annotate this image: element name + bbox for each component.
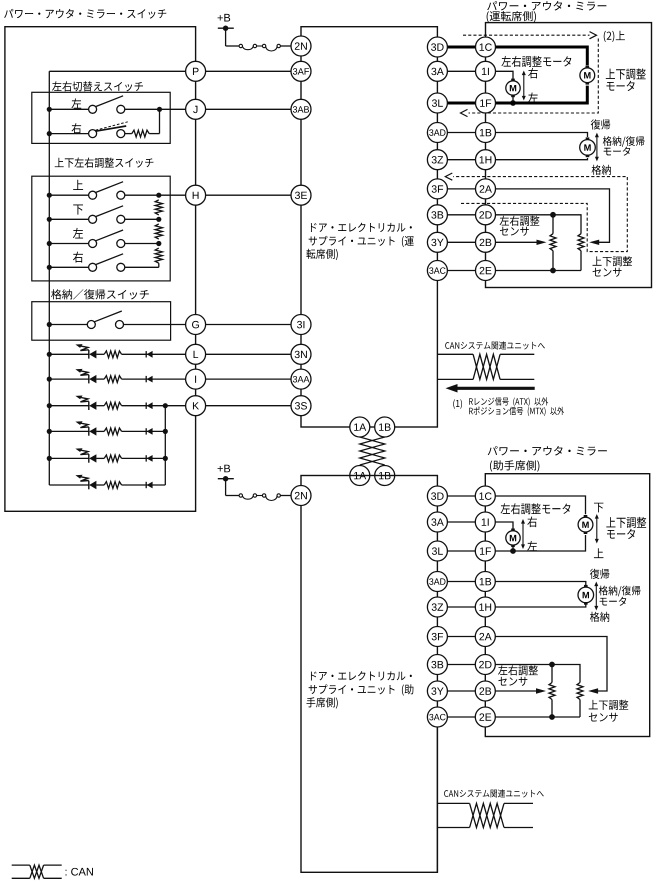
label return (driver): [591, 119, 610, 129]
terminal 3F: [427, 179, 447, 199]
terminal 3AC passenger: [427, 707, 447, 727]
wire retract motor to 1H: [496, 158, 588, 160]
wire 3D to 1C (p): [447, 495, 475, 497]
label hidari (box1): [71, 98, 81, 108]
label return (passenger): [590, 569, 609, 579]
LED row 4: [47, 421, 168, 436]
legend CAN text: [66, 868, 93, 876]
unit2 right edge stub below 3AC: [436, 727, 438, 872]
+B power feed (passenger): [218, 465, 239, 496]
terminal 3I: [291, 315, 311, 335]
wire I to 3AA: [206, 378, 291, 380]
terminal 2E mirror passenger: [475, 707, 495, 727]
wire 1B to retract motor (p): [495, 582, 586, 587]
terminal 2N passenger: [291, 486, 311, 506]
label shita (passenger): [594, 503, 603, 513]
wire 2E sensor bottom (p): [495, 714, 580, 720]
wire 3L to 1F (p): [447, 550, 475, 552]
label up-down sensor (passenger): [589, 700, 629, 722]
label unit driver: [306, 223, 413, 261]
direction arrow retract (driver): [595, 133, 599, 162]
thick loop motor to 1F: [496, 86, 588, 103]
resistor chain box2: [155, 200, 162, 267]
wire 1C to up-down motor (p): [495, 496, 585, 514]
wire 3AC to 2E: [447, 270, 475, 272]
wire 3Z to 1H: [447, 159, 475, 161]
terminal 1F mirror passenger: [475, 541, 495, 561]
selector switch box: [32, 92, 170, 143]
wire 3Y to 2B: [447, 241, 475, 243]
terminal H: [186, 185, 206, 205]
terminal 3F passenger: [427, 627, 447, 647]
wire 3F to 2A: [447, 188, 475, 190]
terminal J: [186, 99, 206, 119]
terminal 1B mirror passenger: [475, 572, 495, 592]
wire 2B to left-right sensor wiper (p): [495, 688, 546, 693]
terminal 3L passenger: [427, 541, 447, 561]
label retract (passenger): [590, 612, 609, 622]
twisted pair between units: [360, 437, 385, 465]
terminal 3A: [427, 61, 447, 81]
door electrical supply unit (passenger) box: [301, 476, 437, 873]
CAN twisted pair (driver): [437, 354, 534, 379]
wire 3A to 1I: [447, 70, 475, 72]
label hidari (driver): [528, 93, 538, 103]
label selector switch: [52, 81, 143, 91]
label R range signal: [469, 397, 548, 406]
power outer mirror (driver) box: [486, 23, 652, 288]
terminal 3AC: [427, 261, 447, 281]
wire led riser: [164, 406, 166, 485]
wire 2D sensor top (p): [495, 662, 580, 683]
label CAN units (passenger): [444, 789, 544, 797]
label power outer mirror switch: [4, 9, 166, 19]
terminal K: [186, 396, 206, 416]
wire 3B to 2D: [447, 214, 475, 216]
wire motor to 1F line: [510, 95, 516, 106]
terminal 3L: [427, 93, 447, 113]
door electrical supply unit (driver) box: [301, 27, 437, 427]
terminal 3D: [427, 37, 447, 57]
terminal 2B mirror passenger: [475, 681, 495, 701]
label mirror driver: [487, 1, 607, 22]
terminal 2D mirror passenger: [475, 655, 495, 675]
terminal 2B: [476, 232, 496, 252]
wire motor to 1F line (p): [510, 545, 516, 554]
terminal 3E: [291, 185, 311, 205]
retract switch box: [32, 302, 171, 341]
direction arrow left-right (driver): [522, 71, 526, 101]
label migi (box1): [72, 123, 82, 134]
terminal 3AD: [427, 123, 447, 143]
wire 3AD to 1B (p): [447, 581, 475, 583]
terminal 3AD passenger: [427, 572, 447, 592]
wire 2D sensor top: [496, 212, 582, 234]
motor U7 retract (passenger): [578, 585, 594, 605]
power outer mirror (passenger) box: [485, 474, 649, 737]
wire 1I to motor (p): [495, 522, 513, 531]
label up-down sensor (driver): [593, 256, 633, 277]
coil fuse to 2N (passenger): [239, 494, 291, 501]
label CAN units (driver): [445, 341, 545, 349]
label left-right sensor (passenger): [498, 665, 538, 686]
wire J to 3AB: [206, 108, 291, 110]
terminal 2E: [476, 261, 496, 281]
CAN twisted pair (passenger): [437, 803, 533, 827]
label left-right adjust motor (driver): [501, 56, 571, 67]
label hidari (passenger): [527, 541, 537, 551]
wire up-down motor to 1F (p): [495, 535, 585, 551]
terminal 2A: [476, 179, 496, 199]
terminal 3AF: [291, 61, 311, 81]
terminal 2A mirror passenger: [475, 627, 495, 647]
motor U3 up-down (driver): [580, 66, 595, 85]
terminal 3Y: [427, 232, 447, 252]
R-range signal arrow: [446, 384, 535, 393]
wire 3A to 1I (p): [447, 521, 475, 523]
terminal L: [186, 344, 206, 364]
terminal 1A upper: [350, 417, 370, 437]
label 右 (box2): [73, 252, 83, 263]
dashed sensor path: [445, 173, 627, 252]
potentiometer left-right sensor (passenger): [549, 665, 555, 718]
direction arrow retract (passenger): [594, 582, 598, 611]
terminal 2D: [476, 205, 496, 225]
dashed arrow (2)up: [463, 32, 597, 39]
terminal 1B: [476, 123, 496, 143]
terminal 1B upper: [375, 417, 395, 437]
label (2)up: [604, 31, 625, 42]
terminal 1I: [476, 61, 496, 81]
LED row 5: [47, 448, 168, 463]
label retract-return motor (passenger): [599, 586, 641, 606]
wire P to left bus: [49, 70, 185, 72]
switch row 左: [47, 230, 162, 248]
terminal 3Z passenger: [427, 597, 447, 617]
dashed return path down: [461, 39, 599, 117]
wire 3AD to 1B: [447, 132, 475, 134]
terminal 1F: [476, 93, 496, 113]
switch row 右: [47, 254, 159, 271]
wire 2A to up-down sensor wiper: [496, 189, 610, 245]
terminal 1I mirror passenger: [475, 512, 495, 532]
label R position signal: [469, 407, 564, 416]
wire 1I to motor: [496, 71, 514, 80]
terminal 3Y passenger: [427, 681, 447, 701]
terminal 1B lower: [375, 466, 395, 486]
LED row 6: [49, 475, 165, 490]
terminal G: [186, 315, 206, 335]
wire 1B to retract motor: [496, 133, 588, 138]
wire up row to H: [159, 194, 186, 196]
switch row 上: [47, 182, 162, 200]
wire 2E sensor bottom: [496, 268, 582, 274]
wire 3Y to 2B (p): [447, 690, 475, 692]
wire L to 3N: [206, 353, 291, 355]
label migi (passenger): [527, 517, 537, 528]
label 左 (box2): [73, 228, 83, 239]
terminal 3AA: [291, 369, 311, 389]
wire G to 3I: [206, 324, 291, 326]
thick loop 1C to motor: [496, 47, 588, 65]
wire 2A to up-down sensor wiper (p): [495, 637, 607, 694]
potentiometer left-right sensor (driver): [550, 215, 556, 271]
label retract switch: [51, 289, 149, 299]
switch right row: [47, 122, 128, 138]
potentiometer up-down sensor (driver): [578, 234, 584, 271]
terminal 1A lower: [350, 466, 370, 486]
terminal 3AB: [291, 99, 311, 119]
terminal 2N: [291, 36, 311, 56]
label 下 (box2): [73, 205, 83, 215]
label (1): [453, 399, 462, 409]
label left-right sensor (driver): [500, 216, 540, 236]
wire H to 3E: [206, 194, 291, 196]
label retract-return motor (driver): [603, 136, 645, 156]
wire 3B to 2D (p): [447, 664, 475, 666]
direction arrow left-right (passenger): [521, 519, 525, 549]
terminal 1C mirror passenger: [475, 486, 495, 506]
terminal I: [186, 369, 206, 389]
terminal 3S: [291, 396, 311, 416]
+B power feed (driver): [218, 14, 239, 46]
terminal 3N: [291, 344, 311, 364]
label retract (driver): [592, 165, 611, 175]
wire 3AC to 2E (p): [447, 716, 475, 718]
wire K to 3S: [206, 405, 291, 407]
label mirror passenger: [488, 446, 607, 472]
wire 3Z to 1H (p): [447, 606, 475, 608]
potentiometer up-down sensor (passenger): [577, 683, 583, 718]
motor U4 retract (driver): [580, 137, 596, 157]
terminal 3D passenger: [427, 486, 447, 506]
switch row 下: [47, 206, 162, 224]
adjust switch box: [32, 176, 170, 281]
motor U6 up-down (passenger): [578, 515, 593, 534]
wire P to 3AF: [206, 70, 291, 72]
label 上 (box2): [73, 180, 83, 190]
coil fuse to 2N (driver): [239, 44, 291, 51]
LED row K: [47, 396, 186, 411]
terminal 1C: [476, 37, 496, 57]
motor U5 left-right (passenger): [506, 529, 520, 548]
label ue (passenger): [594, 548, 604, 558]
wire box1 right riser: [159, 109, 161, 133]
left bus vertical: [48, 71, 50, 485]
terminal 1H: [476, 150, 496, 170]
terminal 3Z: [427, 150, 447, 170]
wire 3L to 1F thick: [447, 102, 475, 105]
legend CAN twisted pair: [12, 865, 62, 878]
label migi (driver): [528, 68, 538, 79]
wire 3F to 2A (p): [447, 636, 475, 638]
power outer mirror switch unit box: [5, 27, 196, 512]
switch left row: [47, 96, 186, 114]
LED row L: [47, 344, 186, 359]
wire 2B to left-right sensor wiper: [496, 240, 547, 245]
LED row I: [47, 369, 186, 384]
wire 3D to 1C thick: [447, 46, 475, 49]
motor U2 left-right (driver): [506, 79, 520, 98]
direction arrow up-down (passenger): [595, 514, 599, 544]
terminal 1H mirror passenger: [475, 597, 495, 617]
label up-down motor (passenger): [606, 517, 646, 539]
resistor right row box1: [125, 130, 160, 137]
label unit passenger: [306, 671, 413, 709]
wire retract motor to 1H (p): [495, 603, 586, 607]
label left-right adjust motor (passenger): [501, 503, 571, 514]
label up-down motor (driver): [606, 68, 646, 91]
terminal 3B: [427, 205, 447, 225]
retract switch row: [47, 311, 186, 329]
label adjust switch: [55, 158, 154, 168]
terminal P: [186, 61, 206, 81]
terminal 3B passenger: [427, 655, 447, 675]
terminal 3A passenger: [427, 512, 447, 532]
